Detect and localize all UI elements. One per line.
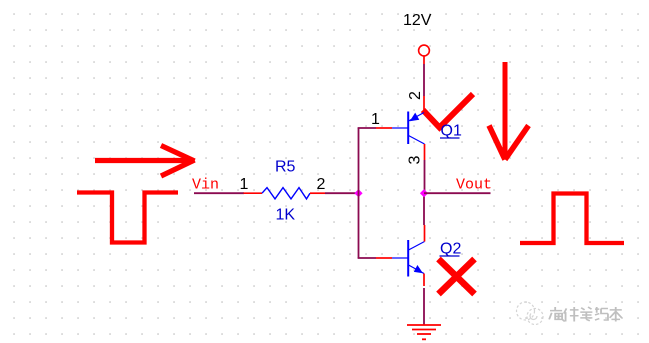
transistor Q1	[392, 112, 425, 145]
pin 3 of Q1 (emitter stub)	[424, 144, 426, 160]
power terminal (12V open circle)	[419, 45, 430, 56]
wire: bus to Q1 base	[358, 127, 376, 129]
resistor R5 body	[262, 188, 310, 199]
svg-text:Q2: Q2	[440, 241, 461, 258]
annotation: output waveform (positive pulse)	[520, 194, 624, 244]
wire: terminal to Q1 collector pin	[423, 64, 425, 96]
pin 2 of Q2 (collector stub)	[424, 225, 426, 242]
svg-text:Vout: Vout	[456, 177, 492, 194]
svg-text:1K: 1K	[276, 207, 296, 224]
junction node at base bus	[354, 189, 362, 197]
svg-text:12V: 12V	[403, 12, 432, 29]
pin 1 of R5 (red stub)	[244, 192, 263, 194]
wire: Q1 emitter down to output node	[424, 160, 426, 193]
ground	[407, 325, 441, 339]
wire: output node to Vout	[424, 192, 491, 194]
svg-text:Q1: Q1	[441, 123, 462, 140]
pin 1 of Q1 (base stub)	[376, 127, 392, 129]
transistor Q2	[392, 240, 425, 277]
wire: resistor to base bus node	[325, 192, 358, 194]
wire: bus to Q2 base	[358, 257, 376, 259]
wire: output node down to Q2 collector	[423, 193, 425, 225]
svg-text:1: 1	[371, 111, 380, 128]
pin 1 of Q2 (base stub)	[376, 257, 392, 259]
wire: 12V terminal stub	[423, 56, 425, 65]
pin 3 of Q2 (emitter stub)	[423, 274, 425, 287]
annotation: input waveform (inverted pulse)	[77, 193, 178, 243]
wire: vertical base bus	[358, 128, 360, 258]
pin 2 of Q1 (red stub)	[423, 96, 425, 113]
pin 2 of R5 (red stub)	[310, 192, 325, 194]
annotation: red right arrow (input side)	[95, 146, 195, 177]
annotation: red check mark near Q1	[423, 94, 473, 128]
svg-text:2: 2	[317, 176, 326, 193]
svg-text:3: 3	[407, 156, 424, 165]
annotation: red down arrow (output side)	[489, 62, 529, 160]
svg-text:R5: R5	[275, 159, 296, 176]
watermark logo	[517, 302, 544, 325]
svg-text:2: 2	[407, 91, 424, 100]
wire: Q2 emitter to ground	[423, 288, 425, 325]
svg-text:1: 1	[240, 176, 249, 193]
annotation: red X mark near Q2	[439, 259, 475, 294]
svg-text:Vin: Vin	[192, 177, 219, 194]
watermark text 硬件笔记本	[549, 307, 622, 322]
wire: Vin to resistor pin 1	[194, 192, 244, 194]
output junction node	[420, 189, 428, 197]
